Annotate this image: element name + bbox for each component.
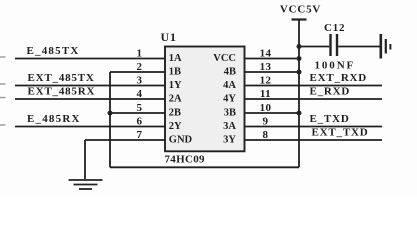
svg-text:3: 3: [137, 75, 143, 87]
net label E_485TX: [27, 45, 80, 57]
svg-text:4Y: 4Y: [223, 94, 236, 105]
pin number 1: [137, 48, 143, 60]
net label VCC5V: [280, 4, 321, 16]
pin number 8: [263, 129, 269, 141]
svg-text:3A: 3A: [223, 121, 236, 132]
IC U1 74HC09 body: [165, 47, 245, 152]
capacitor C12 value 100NF: [315, 60, 356, 72]
svg-text:4B: 4B: [224, 67, 236, 78]
svg-text:EXT_TXD: EXT_TXD: [312, 127, 369, 139]
svg-text:7: 7: [137, 129, 143, 141]
net label E_485RX: [27, 113, 81, 125]
svg-text:2B: 2B: [169, 108, 181, 119]
wire bottom feedback horizontal: [110, 166, 299, 168]
wire pin 9 net E_TXD: [245, 126, 383, 128]
svg-text:VCC5V: VCC5V: [280, 4, 321, 16]
ground earth symbol bottom left: [69, 180, 103, 189]
wire pin 3 net EXT_485TX: [15, 85, 165, 87]
wire pin 11 net E_RXD: [245, 98, 383, 100]
junction dot VCC tee: [297, 44, 302, 49]
svg-text:5: 5: [137, 102, 143, 114]
svg-text:2A: 2A: [169, 94, 182, 105]
svg-text:74HC09: 74HC09: [165, 154, 205, 166]
svg-text:EXT_RXD: EXT_RXD: [310, 72, 368, 84]
net label EXT_485RX: [28, 86, 96, 98]
wire pin 13: [245, 71, 300, 73]
wire pin 7 GND: [85, 139, 165, 141]
wire pin 10: [245, 112, 300, 114]
svg-text:8: 8: [263, 129, 269, 141]
pin number 13: [260, 61, 272, 73]
pin number 7: [137, 129, 143, 141]
pin number 10: [260, 102, 272, 114]
wire capacitor to right ground: [338, 46, 379, 48]
pin number 6: [137, 116, 143, 128]
wire pin 8 net EXT_TXD: [245, 139, 383, 141]
pin number 5: [137, 102, 143, 114]
pin number 2: [137, 61, 143, 73]
net label EXT_RXD: [310, 72, 368, 84]
svg-text:1Y: 1Y: [169, 80, 182, 91]
svg-text:GND: GND: [169, 135, 193, 146]
wire pin 4 net EXT_485RX: [15, 98, 165, 100]
wire pin 14 VCC: [245, 58, 300, 60]
IC U1 part number 74HC09: [165, 154, 205, 166]
pin number 3: [137, 75, 143, 87]
svg-text:EXT_485TX: EXT_485TX: [28, 72, 95, 84]
wire right VCC vertical: [298, 21, 300, 168]
pin number 11: [260, 88, 271, 100]
svg-text:3Y: 3Y: [223, 135, 236, 146]
IC U1 left pin name labels 1A 1B 1Y 2A 2B 2Y GND: [169, 53, 193, 146]
svg-text:2: 2: [137, 61, 143, 73]
svg-text:4A: 4A: [223, 80, 236, 91]
net label EXT_TXD: [312, 127, 369, 139]
edge stub row 1: [0, 56, 6, 58]
svg-text:2Y: 2Y: [169, 121, 182, 132]
svg-text:E_485TX: E_485TX: [27, 45, 80, 57]
power symbol VCC5V bar: [292, 18, 307, 20]
pin number 4: [137, 88, 143, 100]
capacitor C12 designator: [324, 22, 345, 34]
svg-text:14: 14: [260, 48, 272, 60]
svg-text:10: 10: [260, 102, 272, 114]
svg-text:E_RXD: E_RXD: [310, 86, 351, 98]
svg-text:13: 13: [260, 61, 272, 73]
svg-text:EXT_485RX: EXT_485RX: [28, 86, 96, 98]
svg-text:4: 4: [137, 88, 143, 100]
wire pin 12 net EXT_RXD: [245, 85, 383, 87]
wire pin 6 net E_485RX: [15, 126, 165, 128]
wire pin 5: [110, 112, 165, 114]
IC U1 designator label: [161, 30, 177, 44]
junction dot pin 14: [297, 56, 302, 61]
net label EXT_485TX: [28, 72, 95, 84]
svg-text:3B: 3B: [224, 108, 236, 119]
wire pin 1 net E_485TX: [15, 58, 165, 60]
svg-text:9: 9: [263, 116, 269, 128]
svg-text:C12: C12: [324, 22, 345, 34]
svg-text:11: 11: [260, 88, 271, 100]
capacitor C12 plates: [331, 34, 338, 56]
svg-text:VCC: VCC: [213, 53, 236, 64]
junction dot pin 13: [297, 70, 302, 75]
junction dot pin 5 feedback: [108, 111, 113, 116]
svg-text:U1: U1: [161, 30, 177, 44]
pin number 12: [260, 75, 272, 87]
pin number 14: [260, 48, 272, 60]
edge stub row 3: [0, 83, 6, 85]
svg-text:E_TXD: E_TXD: [310, 113, 350, 125]
svg-text:12: 12: [260, 75, 272, 87]
edge stub row 4: [0, 97, 6, 99]
IC U1 right pin name labels VCC 4B 4A 4Y 3B 3A 3Y: [213, 53, 236, 146]
svg-text:1A: 1A: [169, 53, 182, 64]
wire left feedback vertical: [109, 72, 111, 167]
pin number 9: [263, 116, 269, 128]
net label E_TXD: [310, 113, 350, 125]
ground earth symbol right (vertical bars): [381, 34, 391, 59]
net label E_RXD: [310, 86, 351, 98]
edge stub row 6: [0, 124, 6, 126]
svg-text:1B: 1B: [169, 67, 181, 78]
wire ground stem: [84, 140, 86, 179]
junction dot pin 10: [297, 111, 302, 116]
svg-text:6: 6: [137, 116, 143, 128]
svg-text:100NF: 100NF: [315, 60, 356, 72]
svg-text:E_485RX: E_485RX: [27, 113, 81, 125]
wire pin 2: [110, 71, 165, 73]
svg-text:1: 1: [137, 48, 143, 60]
wire VCC to capacitor: [299, 46, 329, 48]
